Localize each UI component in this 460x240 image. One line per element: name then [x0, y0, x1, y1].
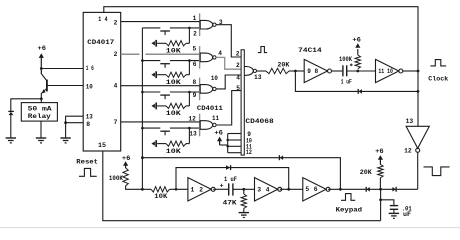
resistor R12 47K vertical	[243, 189, 245, 194]
wire U3 pins 9-12 tie bar	[227, 134, 229, 153]
inverter U5B (pins 3,4)	[255, 178, 278, 201]
node C6/R12 junction dot	[242, 188, 245, 191]
svg-text:6: 6	[314, 186, 318, 193]
svg-text:4: 4	[266, 186, 270, 193]
wire U1 pin8 to ground bus	[66, 122, 84, 124]
diode D2 (key row 1)	[151, 41, 155, 45]
wire U1 pin2(gray) to gate U2B input 5	[121, 53, 140, 55]
svg-text:50 mA: 50 mA	[28, 106, 52, 113]
svg-text:7: 7	[114, 119, 118, 126]
svg-text:2: 2	[114, 19, 118, 26]
svg-text:10: 10	[211, 75, 218, 82]
svg-text:Reset: Reset	[76, 159, 98, 167]
waveform inverted pulse (keypad line)	[424, 167, 450, 176]
diode D1 (relay clamp, cathode up)	[8, 110, 14, 112]
diode D8 (line2)	[230, 165, 232, 170]
svg-text:5: 5	[236, 85, 240, 92]
diode D6 (feedback)	[357, 89, 359, 94]
capacitor C2 plate and stem	[160, 63, 170, 65]
power +6 (R9 pullup)	[355, 43, 360, 48]
wire U1 pin4 to gate U2C input 8	[121, 85, 200, 87]
capacitor C7 .01uF plates	[390, 205, 398, 207]
svg-text:+6: +6	[352, 36, 361, 43]
wire cap branch	[381, 200, 394, 206]
svg-text:1 6: 1 6	[86, 65, 94, 72]
svg-text:CD4068: CD4068	[245, 118, 273, 125]
svg-text:1: 1	[191, 186, 195, 193]
wire C5 to U4B input	[347, 70, 376, 72]
svg-text:15: 15	[98, 142, 106, 149]
wire U5C output keypad line	[328, 188, 418, 190]
diode D5 (key row 4)	[151, 141, 155, 145]
wire +6 node to U1 pin16	[41, 68, 83, 70]
wire U5B output to U5C input	[280, 188, 303, 190]
svg-text:13: 13	[189, 131, 197, 138]
node U4A input junction dot	[294, 70, 297, 73]
node bus row 3 junction dot	[141, 91, 144, 94]
nand gate U2B CD4011	[199, 46, 201, 69]
node cap branch dot	[379, 198, 382, 201]
wire emitter node to diode branch	[11, 99, 42, 111]
svg-text:10K: 10K	[154, 193, 167, 200]
wire C6 to U5B input	[233, 188, 255, 190]
wire R10 bottom to debounce input	[126, 186, 151, 190]
waveform reset pulse	[79, 168, 97, 176]
wire keypad common bus vertical	[141, 28, 143, 158]
wire Q1 base to U1 pin10	[47, 85, 83, 87]
wire U4B output to clock node	[403, 70, 419, 72]
svg-text:9 8: 9 8	[307, 68, 318, 75]
wire key row 2 top (bus to gate input), capacitor gap	[142, 60, 160, 62]
ground (R12)	[239, 212, 249, 214]
wire U4A input feedback run	[295, 71, 418, 91]
transistor Q1 base bar	[46, 80, 48, 92]
wire U1 pin15 down to bottom rail	[103, 151, 381, 221]
node R9 bottom junction dot	[356, 70, 359, 73]
svg-text:11: 11	[212, 115, 219, 122]
svg-text:2: 2	[193, 30, 197, 37]
svg-text:47K: 47K	[223, 199, 237, 206]
wire key row 4 top (bus to gate input), capacitor gap	[142, 127, 160, 129]
svg-text:1 uF: 1 uF	[341, 79, 352, 86]
nand gate U2C CD4011	[199, 78, 201, 101]
node bus/debounce junction dot	[141, 188, 144, 191]
page border artifact	[0, 227, 460, 229]
resistor R4 10K (key row 2)	[157, 74, 166, 76]
waveform pulse at U3 output	[258, 47, 267, 53]
svg-text:+6: +6	[38, 45, 47, 52]
node row 1 gate-input junction dot	[188, 27, 191, 30]
node bus row 4 junction dot	[141, 127, 144, 130]
wire bus to debounce input	[141, 158, 143, 190]
svg-text:Keypad: Keypad	[336, 207, 363, 215]
power +6 (U3 unused inputs)	[217, 137, 222, 142]
wire key row 3 top (bus to gate input), capacitor gap	[142, 91, 160, 93]
wire R8 to U4A input	[289, 70, 304, 72]
resistor R9 100K vertical	[355, 55, 360, 69]
inverter U5C (pins 5,6)	[303, 178, 326, 201]
svg-text:12: 12	[404, 148, 412, 155]
svg-text:10K: 10K	[166, 110, 181, 117]
inverter U5A (pins 1,2)	[188, 178, 211, 201]
power +6 (transistor collector)	[39, 53, 44, 58]
power +6 (R13 pullup)	[378, 155, 383, 160]
capacitor C6 1uF plates	[228, 183, 230, 195]
node row 3 gate-input junction dot	[188, 91, 191, 94]
svg-text:2: 2	[236, 50, 240, 57]
ground (U1 pins 13,8)	[60, 137, 70, 139]
node row 2 gate-input junction dot	[188, 59, 191, 62]
resistor R6 10K (key row 4)	[157, 143, 166, 145]
svg-text:+: +	[220, 183, 224, 191]
wire keypad node down bottom rail	[380, 189, 382, 220]
svg-text:8: 8	[86, 121, 90, 128]
transistor Q1 emitter lead with arrow	[42, 88, 47, 92]
wire U2D output to U3 pin 5	[216, 91, 241, 125]
svg-text:5: 5	[192, 46, 196, 53]
wire U1 pin14 to top rail and clock node	[104, 7, 418, 71]
node pin8 junction dot	[64, 121, 67, 124]
svg-text:9: 9	[193, 92, 197, 99]
wire row 3 junction down to RC	[188, 92, 190, 106]
wire U1 pin13 to ground bus	[66, 116, 84, 137]
nand gate U2D CD4011	[199, 114, 201, 137]
wire U2C output to U3 pin 4	[216, 75, 241, 89]
svg-text:+6: +6	[122, 155, 131, 162]
svg-text:2: 2	[114, 51, 118, 58]
IC U3 CD4068 body	[241, 50, 244, 155]
wire U2A output to U3 pin 2	[216, 25, 241, 57]
inverter U4A (pins 9,8)	[304, 59, 327, 82]
svg-text:11 10: 11 10	[378, 68, 393, 75]
node line2 takeoff dot	[175, 188, 178, 191]
node R13 bottom dot	[379, 188, 382, 191]
nand gate U2A CD4011	[199, 13, 201, 36]
resistor R5 10K (key row 3)	[157, 105, 166, 107]
svg-text:+6: +6	[375, 148, 384, 155]
capacitor C4 plate and stem	[160, 130, 170, 132]
wire U2B output to U3 pin 3 (gray)	[216, 57, 241, 69]
ground (diode D1)	[6, 137, 16, 139]
wire U5A output to C6	[213, 188, 228, 190]
svg-text:10: 10	[86, 83, 93, 90]
diode D7 (line1)	[278, 155, 280, 160]
svg-text:4: 4	[218, 50, 222, 57]
inverter U4B (pins 11,10)	[376, 59, 399, 82]
svg-text:1 uF: 1 uF	[224, 176, 237, 183]
capacitor C5 1uF plates	[342, 65, 344, 76]
wire R11 to U5A input	[170, 188, 188, 190]
node keypad line dot	[339, 188, 342, 191]
waveform keypad pulse	[341, 194, 355, 201]
wire row 1 junction down to RC	[188, 28, 190, 43]
wire U4C output down to keypad line	[417, 152, 419, 189]
diode D4 (key row 3)	[151, 104, 155, 108]
wire key row 1 top (bus to gate input), capacitor gap	[142, 27, 160, 29]
node bus/line1 junction dot	[141, 156, 144, 159]
transistor Q1 collector lead	[41, 74, 47, 81]
svg-text:5: 5	[305, 186, 309, 193]
resistor R11 10K	[151, 187, 170, 192]
wire U1 pin7 to gate U2D input 12	[121, 121, 200, 123]
IC U1 CD4017 decade counter body	[83, 12, 121, 151]
node tie bar dot a	[226, 139, 229, 142]
resistor R10 100K vertical	[123, 168, 128, 186]
svg-text:12: 12	[246, 149, 252, 156]
svg-text:uF: uF	[403, 211, 411, 218]
svg-text:10K: 10K	[166, 148, 181, 155]
waveform clock pulse	[430, 60, 446, 66]
svg-text:8: 8	[192, 79, 196, 86]
resistor R3 10K (key row 1)	[157, 42, 166, 44]
wire clock vertical to U4C	[417, 71, 419, 126]
svg-text:13: 13	[406, 118, 414, 125]
resistor R13 20K vertical	[378, 164, 383, 177]
node collector junction dot	[40, 67, 43, 70]
svg-text:+6: +6	[214, 130, 223, 137]
svg-text:20K: 20K	[360, 169, 372, 176]
node bus row 2 junction dot	[141, 59, 144, 62]
wire line2 feedback	[176, 168, 289, 190]
svg-text:Relay: Relay	[28, 113, 51, 120]
capacitor C1 plate and stem	[160, 30, 170, 32]
wire row 2 junction down to RC	[188, 61, 190, 75]
svg-text:4: 4	[114, 82, 118, 89]
wire emitter node to relay	[40, 99, 42, 103]
node clock junction dot	[417, 70, 420, 73]
diode D3 (key row 2)	[151, 73, 155, 77]
svg-text:CD4017: CD4017	[87, 39, 114, 46]
ground (C7)	[389, 212, 399, 214]
wire U4A output to C5	[332, 70, 343, 72]
svg-text:4: 4	[236, 75, 240, 82]
svg-text:100K: 100K	[109, 175, 123, 182]
svg-text:13: 13	[254, 74, 262, 81]
svg-text:CD4011: CD4011	[197, 105, 223, 112]
svg-text:10K: 10K	[166, 79, 181, 86]
svg-text:3: 3	[257, 186, 261, 193]
svg-text:Clock: Clock	[428, 76, 448, 84]
svg-text:74C14: 74C14	[298, 47, 322, 55]
inverter U4C (pins 13,12) pointing down	[406, 126, 429, 148]
wire line1 keypad drive	[142, 158, 340, 190]
resistor R8 20K	[266, 68, 289, 73]
node feedback2 junction dot	[287, 188, 290, 191]
svg-text:13: 13	[86, 113, 93, 120]
capacitor C3 plate and stem	[160, 94, 170, 96]
svg-text:2: 2	[199, 186, 203, 193]
node tie bar dot b	[226, 145, 229, 148]
wire R9 top stub	[357, 49, 359, 55]
wire relay to ground	[40, 121, 42, 138]
diode D10 (keypad line right)	[395, 187, 397, 192]
node row 4 gate-input junction dot	[188, 127, 191, 130]
svg-text:100K: 100K	[339, 56, 352, 63]
node emitter junction dot	[40, 97, 43, 100]
power +6 (R10 pullup)	[123, 161, 128, 166]
wire U1 pin2 to gate U2A input 1	[121, 21, 200, 23]
relay K1 50 mA box	[21, 103, 57, 122]
wire U3 output to R8	[257, 70, 267, 72]
ground (relay)	[36, 137, 46, 139]
node feedback/clock junction dot	[417, 90, 420, 93]
diode D9 (keypad line left)	[365, 187, 367, 192]
svg-text:2: 2	[236, 62, 240, 69]
svg-text:20K: 20K	[277, 61, 289, 68]
svg-text:1 4: 1 4	[98, 16, 108, 23]
svg-text:6: 6	[193, 61, 197, 68]
U3 gate symbol with output bubble	[244, 67, 253, 76]
wire row 4 junction down to RC	[188, 128, 190, 144]
